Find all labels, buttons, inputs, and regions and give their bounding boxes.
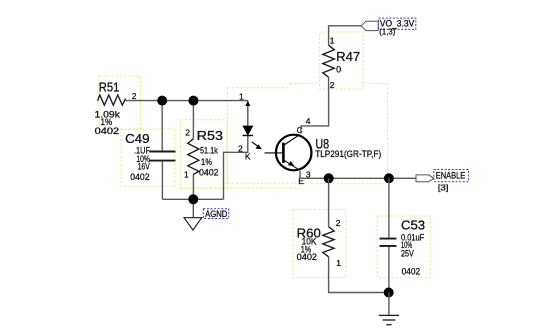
svg-text:0402: 0402 [297,252,317,262]
U8 collector diagonal [284,135,300,145]
GND stem [388,293,390,316]
wire: R51 to LED anode corner (top rail) [126,100,248,102]
svg-text:ENABLE: ENABLE [436,171,466,182]
junction: top rail / C49 [157,96,167,106]
highlight box C49 [121,129,175,186]
wire: R60 bottom to bottom junction [329,257,389,293]
svg-text:0402: 0402 [95,126,120,136]
output flag ENABLE [416,170,468,193]
capacitor C49 [125,132,175,182]
wire: collector to R47 [301,77,329,133]
R51 zigzag symbol [98,95,126,105]
R47 zigzag symbol [323,45,335,77]
wire: LED cathode to AGND rail [224,136,248,200]
R60 zigzag symbol [323,227,334,257]
svg-text:1%: 1% [201,157,212,167]
resistor R53 [184,127,223,179]
ground AGND [184,209,229,230]
wire: C49 top drop [161,101,163,152]
C49 plates [150,151,176,153]
junction: emitter rail / C53 [384,173,394,183]
ENABLE flag pentagon [416,175,434,182]
U8 emitter diagonal [284,160,298,169]
svg-text:R53: R53 [197,129,223,143]
svg-text:0402: 0402 [199,167,219,177]
AGND net label [203,209,228,219]
svg-text:0402: 0402 [130,172,149,182]
U8 LED triangle [243,126,253,135]
R53 zigzag symbol [188,139,199,175]
GND bars [379,314,400,316]
wire: AGND stem [192,199,194,217]
highlight box R51 [99,76,141,129]
svg-text:AGND: AGND [205,209,228,219]
svg-text:2: 2 [132,91,137,101]
highlight box R47 [320,32,364,89]
wire: R60 top drop [328,178,330,226]
svg-text:1: 1 [239,91,244,101]
svg-text:K: K [245,151,251,161]
ENABLE net label [434,170,469,182]
svg-text:2: 2 [185,127,190,137]
svg-text:[3]: [3] [438,184,449,193]
U8 base bar [282,143,285,163]
optocoupler U8 [238,91,381,186]
svg-text:4: 4 [306,116,311,126]
svg-text:C53: C53 [401,218,425,232]
highlight box R60 [293,210,346,278]
svg-text:1: 1 [184,170,189,180]
C53 plates [380,238,397,240]
resistor R47 [323,36,360,91]
wire: R53 bottom drop [192,175,194,200]
svg-text:R47: R47 [336,50,360,64]
power flag VO_3.3V [361,18,416,36]
svg-text:R51: R51 [99,80,120,94]
wire: R53 top drop [192,101,194,139]
junction: bottom rail / GND [384,288,394,298]
U8 base lead [265,152,283,154]
U8 transistor circle [276,135,312,171]
svg-text:2: 2 [238,143,243,153]
capacitor C53 [380,218,426,276]
svg-text:2: 2 [336,218,341,228]
junction: top rail / R53 [188,96,198,106]
svg-text:2: 2 [330,80,335,90]
svg-text:0: 0 [336,65,341,75]
highlight box R53 [180,120,226,189]
svg-text:16V: 16V [138,162,150,172]
wire: LED anode vertical [247,101,249,127]
svg-text:25V: 25V [401,248,414,258]
wire: emitter rail to ENABLE flag [300,171,416,178]
resistor R51 [95,80,137,135]
svg-text:0402: 0402 [402,266,421,276]
svg-text:1: 1 [336,258,341,268]
junction: emitter rail / R60 [324,173,334,183]
wire: R47 top to VO flag [329,26,362,45]
wire: C49 bottom drop [161,161,163,200]
wire: C53 top drop [388,178,390,238]
highlight box C53 [377,216,430,278]
svg-text:C49: C49 [125,132,149,146]
highlight box U8 [180,83,387,188]
U8 LED cathode bar [243,135,253,137]
svg-text:TLP291(GR-TP,F): TLP291(GR-TP,F) [315,149,381,160]
VO net label [379,18,416,29]
U8 light arrow [252,142,258,146]
U8 LED pin 1 arrow [245,101,250,106]
svg-text:(1,3): (1,3) [379,27,395,36]
ground GND [379,293,400,325]
junction: AGND rail / R53 [188,194,198,204]
svg-text:51.1k: 51.1k [200,145,218,155]
resistor R60 [297,218,342,268]
svg-text:1: 1 [330,36,335,46]
wire: C53 bottom drop [388,246,390,293]
VO flag pentagon [361,21,378,30]
AGND triangle [184,218,202,230]
wire: AGND bottom rail [162,198,223,200]
U8 emitter arrowhead [288,161,294,166]
